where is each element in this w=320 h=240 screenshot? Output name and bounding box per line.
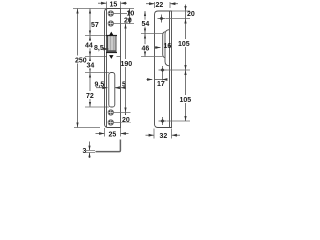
dimension 9,5 — [94, 81, 108, 89]
screw hole H1 — [108, 11, 113, 16]
extension line latch top — [85, 35, 107, 37]
svg-text:250: 250 — [75, 58, 87, 65]
svg-text:8,5: 8,5 — [94, 45, 104, 52]
dimension 17 — [147, 80, 168, 89]
svg-text:22: 22 — [156, 2, 164, 9]
dimension 10/20 line — [124, 9, 134, 25]
dimension 5 — [115, 82, 126, 89]
svg-text:15: 15 — [110, 1, 118, 8]
right-side ext lines of right view — [172, 10, 191, 12]
left view: extension line plate top to far left — [73, 8, 121, 10]
leader 8,5 — [94, 44, 109, 52]
dimension 22 top — [146, 2, 178, 9]
svg-text:44: 44 — [85, 42, 93, 49]
screw hole H3 — [108, 110, 113, 115]
dimension 72 — [86, 73, 95, 108]
svg-text:3: 3 — [83, 148, 87, 155]
svg-text:105: 105 — [178, 41, 190, 48]
dimension 20 right — [184, 5, 194, 19]
extension line slot bottom — [85, 106, 109, 108]
dimension 16 leader — [155, 43, 171, 50]
svg-text:25: 25 — [109, 132, 117, 139]
latch lip outer line — [165, 30, 169, 66]
svg-text:20: 20 — [187, 11, 195, 18]
dimension 44 — [85, 36, 93, 57]
slot (stadium) — [109, 73, 115, 108]
svg-text:32: 32 — [160, 133, 168, 140]
latch arrow down — [109, 55, 113, 59]
right plate outline — [155, 11, 170, 128]
left view: extension line plate bottom — [74, 127, 100, 129]
right plate outer folded edge — [170, 11, 172, 128]
dimension 57 — [89, 9, 99, 36]
right-side extension lines of left plate — [121, 8, 135, 10]
svg-text:57: 57 — [91, 22, 99, 29]
dimension 190 — [121, 24, 133, 113]
screw hole H2 — [108, 21, 113, 26]
dimension 25 bottom — [96, 128, 129, 139]
dimension 3 thickness — [83, 142, 96, 159]
svg-text:20: 20 — [124, 18, 132, 25]
svg-text:46: 46 — [142, 46, 150, 53]
dimension 250 vertical line — [74, 9, 87, 128]
screw hole H4 — [108, 120, 113, 125]
dimension 20 bottom — [122, 113, 131, 125]
extension line latch bottom — [85, 56, 107, 58]
hole cross K3 — [159, 117, 167, 125]
dimension 54 — [141, 11, 149, 34]
hole cross K2 — [159, 66, 167, 81]
dimension 15 top — [98, 1, 127, 8]
left plate fold line — [106, 9, 108, 127]
bottom view L-profile horizontal leg — [96, 140, 121, 152]
dimension 46 — [141, 34, 149, 57]
latch arrow up — [109, 32, 113, 36]
left plate outer outline — [105, 9, 121, 128]
svg-text:34: 34 — [87, 63, 95, 70]
dimension 34 — [86, 57, 94, 73]
svg-text:54: 54 — [142, 21, 150, 28]
dimension 105 lower — [179, 70, 192, 121]
svg-text:72: 72 — [86, 93, 94, 100]
svg-text:17: 17 — [157, 81, 165, 88]
left dims of right view: ext lines — [141, 33, 163, 35]
svg-text:190: 190 — [121, 61, 133, 68]
latch opening with hatch — [106, 36, 117, 53]
svg-text:16: 16 — [164, 43, 172, 50]
svg-text:20: 20 — [122, 117, 130, 124]
hole cross K1 — [158, 15, 166, 23]
latch lip inner line — [163, 32, 165, 58]
dimension 32 bottom — [146, 129, 181, 140]
svg-text:105: 105 — [180, 97, 192, 104]
svg-text:10: 10 — [127, 11, 135, 18]
extension line slot top — [85, 72, 109, 74]
dimension 105 upper — [178, 19, 191, 71]
